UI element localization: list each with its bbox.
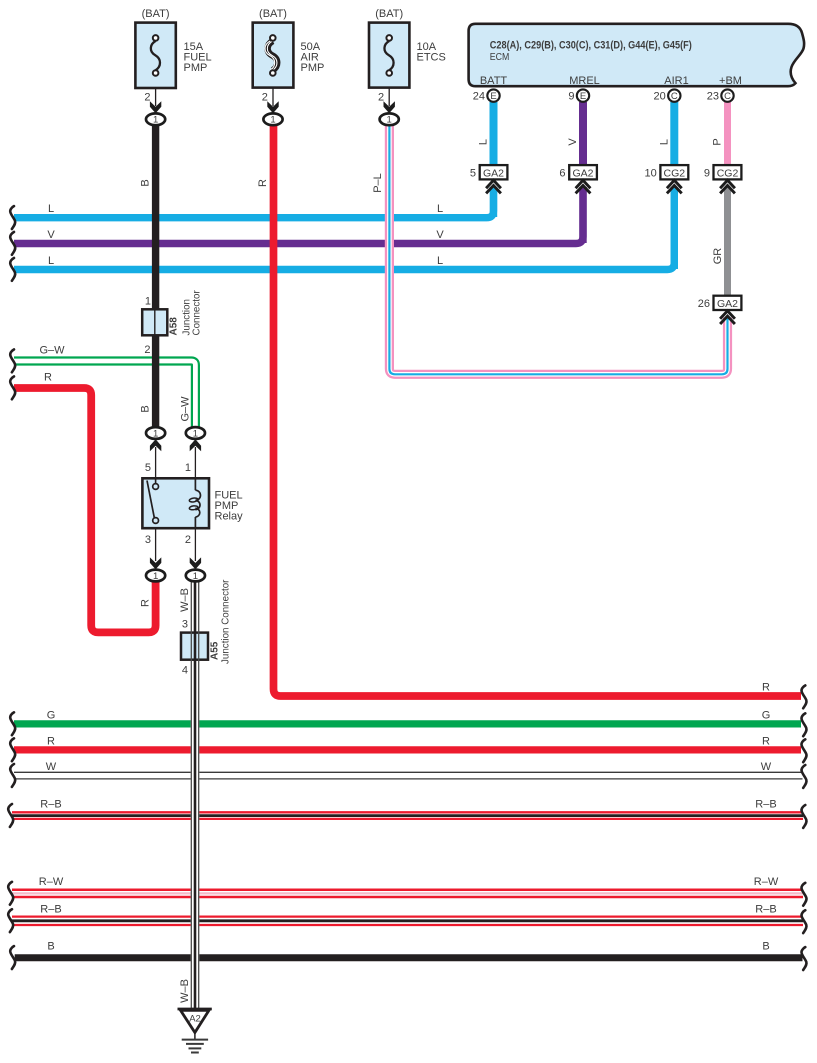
svg-text:A58: A58	[169, 317, 180, 336]
svg-text:W–B: W–B	[179, 979, 191, 1003]
svg-text:3: 3	[182, 619, 188, 631]
svg-text:W: W	[46, 761, 57, 773]
svg-text:(BAT): (BAT)	[142, 8, 170, 20]
svg-text:26: 26	[698, 298, 710, 310]
svg-text:C: C	[671, 91, 678, 102]
svg-text:GA2: GA2	[717, 298, 738, 310]
svg-text:E: E	[580, 91, 586, 102]
svg-text:G–W: G–W	[39, 345, 65, 357]
svg-text:R: R	[762, 682, 770, 694]
svg-text:BATT: BATT	[480, 75, 508, 87]
svg-text:L: L	[478, 139, 490, 145]
svg-text:L: L	[658, 139, 670, 145]
svg-text:W: W	[761, 761, 772, 773]
svg-text:G–W: G–W	[179, 396, 191, 422]
svg-text:P–L: P–L	[372, 173, 384, 193]
svg-text:R: R	[140, 599, 152, 607]
svg-text:R–W: R–W	[39, 876, 64, 888]
svg-text:1: 1	[185, 462, 191, 474]
svg-text:1: 1	[145, 296, 151, 308]
svg-text:R–B: R–B	[755, 904, 776, 916]
svg-text:CG2: CG2	[717, 168, 739, 180]
svg-text:3: 3	[145, 534, 151, 546]
svg-text:R: R	[762, 735, 770, 747]
svg-text:10: 10	[645, 168, 657, 180]
svg-text:2: 2	[185, 534, 191, 546]
svg-text:24: 24	[473, 91, 485, 103]
svg-text:9: 9	[704, 168, 710, 180]
svg-text:2: 2	[144, 92, 150, 104]
svg-text:6: 6	[559, 168, 565, 180]
svg-text:R: R	[44, 372, 52, 384]
svg-text:5: 5	[145, 462, 151, 474]
svg-text:G: G	[47, 709, 56, 721]
svg-text:(BAT): (BAT)	[375, 8, 403, 20]
svg-text:MREL: MREL	[569, 75, 600, 87]
svg-text:B: B	[140, 179, 152, 186]
svg-text:R–W: R–W	[754, 876, 779, 888]
svg-text:L: L	[48, 203, 54, 215]
svg-text:9: 9	[568, 91, 574, 103]
svg-text:2: 2	[262, 92, 268, 104]
svg-text:R–B: R–B	[755, 799, 776, 811]
svg-text:2: 2	[144, 344, 150, 356]
svg-text:Relay: Relay	[215, 511, 244, 523]
svg-text:R–B: R–B	[40, 799, 61, 811]
svg-text:V: V	[47, 229, 55, 241]
svg-text:L: L	[48, 255, 54, 267]
svg-text:B: B	[762, 941, 769, 953]
svg-text:CG2: CG2	[664, 168, 686, 180]
svg-text:Connector: Connector	[192, 290, 203, 336]
svg-text:2: 2	[378, 92, 384, 104]
svg-text:R: R	[47, 735, 55, 747]
svg-text:R: R	[257, 179, 269, 187]
svg-text:20: 20	[654, 91, 666, 103]
svg-text:P: P	[712, 138, 724, 145]
svg-text:L: L	[437, 203, 443, 215]
svg-text:AIR1: AIR1	[664, 75, 688, 87]
svg-text:G: G	[762, 709, 771, 721]
svg-text:(BAT): (BAT)	[259, 8, 287, 20]
svg-text:ECM: ECM	[490, 52, 510, 63]
svg-text:V: V	[567, 138, 579, 146]
svg-text:5: 5	[470, 168, 476, 180]
svg-text:PMP: PMP	[301, 62, 325, 74]
svg-text:GA2: GA2	[572, 168, 593, 180]
svg-text:ETCS: ETCS	[417, 52, 446, 64]
svg-text:+BM: +BM	[719, 75, 742, 87]
svg-text:W–B: W–B	[179, 588, 191, 612]
svg-text:R–B: R–B	[40, 904, 61, 916]
svg-text:A2: A2	[189, 1014, 201, 1025]
svg-text:B: B	[47, 941, 54, 953]
svg-text:V: V	[436, 229, 444, 241]
svg-text:B: B	[140, 405, 152, 412]
svg-text:PMP: PMP	[184, 62, 208, 74]
svg-text:E: E	[490, 91, 496, 102]
svg-text:C: C	[724, 91, 731, 102]
svg-text:23: 23	[707, 91, 719, 103]
svg-text:A55: A55	[210, 641, 221, 660]
svg-text:GR: GR	[712, 248, 724, 265]
svg-text:Junction Connector: Junction Connector	[221, 579, 232, 664]
svg-text:4: 4	[182, 665, 188, 677]
svg-text:GA2: GA2	[483, 168, 504, 180]
svg-text:C28(A), C29(B), C30(C), C31(D): C28(A), C29(B), C30(C), C31(D), G44(E), …	[490, 40, 692, 52]
svg-text:L: L	[437, 255, 443, 267]
